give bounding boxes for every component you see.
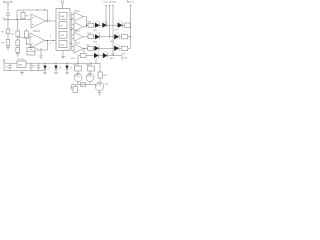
diode VD2 branch <box>55 63 57 65</box>
svg-text:C4: C4 <box>5 67 7 69</box>
connector box XS1 <box>27 48 35 56</box>
top rails label <box>103 0 117 3</box>
resistor R23 vertical <box>99 63 101 72</box>
resistor R5 column2 <box>16 40 20 46</box>
svg-text:DA2.4: DA2.4 <box>75 41 81 44</box>
wire input horizontal <box>4 18 31 20</box>
pin labels left <box>50 36 52 45</box>
svg-text:HL4: HL4 <box>94 41 99 43</box>
transistor VT2 <box>86 74 94 82</box>
svg-text:+9 В: +9 В <box>70 58 75 60</box>
wire feedback op-amp2 <box>37 41 48 51</box>
wire input vertical <box>7 4 9 20</box>
svg-text:R20: R20 <box>86 65 91 67</box>
resistor R20 <box>90 63 92 67</box>
regulator DA3 box <box>17 61 26 67</box>
rail right <box>130 5 131 48</box>
LED HL3 <box>118 23 123 28</box>
resistor R4 column2 <box>16 31 20 37</box>
capacitor C5 <box>29 63 33 70</box>
svg-text:R1: R1 <box>2 32 6 34</box>
PSU input terminal <box>3 60 5 64</box>
svg-text:КР1158: КР1158 <box>18 59 26 61</box>
LED HL8 <box>86 55 94 57</box>
cell 3 <box>59 31 67 38</box>
svg-text:R3: R3 <box>26 16 30 18</box>
svg-text:DA2.3: DA2.3 <box>75 30 81 33</box>
ground under DA2 <box>61 51 65 59</box>
comparator DA2.4 <box>74 44 83 53</box>
wire opamp2 plus input <box>27 43 31 45</box>
resistor R17 row3 end <box>119 36 121 38</box>
resistor R15 row5 <box>80 54 86 58</box>
resistor R21 <box>73 87 77 93</box>
ground PSU <box>20 71 24 75</box>
LED HL4 <box>94 36 95 38</box>
rail A <box>105 5 106 25</box>
svg-text:R9: R9 <box>60 25 64 27</box>
PSU bottom rail <box>4 63 44 70</box>
comparator DA2.3 <box>74 32 83 41</box>
svg-text:HL5: HL5 <box>110 41 115 43</box>
svg-text:DA2: DA2 <box>60 15 65 18</box>
svg-text:Вых. 1: Вых. 1 <box>127 1 135 3</box>
transistor VT1 <box>74 74 82 82</box>
resistor R14 row4 <box>83 47 87 49</box>
svg-text:C5: C5 <box>33 66 36 68</box>
resistor R3 feedback <box>21 12 25 19</box>
node input label top-left <box>3 1 13 4</box>
LED HL5 <box>114 34 119 39</box>
wire feedback op-amp1 <box>17 10 48 21</box>
PSU top rail <box>4 62 74 64</box>
wire op-amp2 out <box>45 40 56 42</box>
comparator DA2.1 <box>74 12 83 21</box>
svg-text:к выв.14 DA2: к выв.14 DA2 <box>103 0 117 3</box>
svg-text:R10: R10 <box>60 35 65 37</box>
svg-text:R2: R2 <box>2 43 6 45</box>
wire row5 from row4 <box>83 48 85 53</box>
bus stubs <box>72 15 74 51</box>
svg-text:C8: C8 <box>59 67 62 69</box>
label R24 <box>124 58 129 60</box>
cell 1 <box>59 12 67 19</box>
capacitor C1 <box>6 13 10 15</box>
cell 2 <box>59 22 67 29</box>
wire opamp2 minus input <box>18 37 30 39</box>
svg-text:+5 В: +5 В <box>60 1 65 3</box>
svg-text:DA1.2: DA1.2 <box>34 30 41 33</box>
rail C <box>112 5 113 56</box>
resistor R16 row2 end <box>122 24 124 26</box>
svg-text:6: 6 <box>50 43 52 45</box>
resistor R2 <box>6 40 10 46</box>
node junction A <box>7 19 8 20</box>
ground VT3 <box>98 91 102 96</box>
LED HL1 <box>94 24 95 26</box>
resistor R19 <box>77 56 79 67</box>
wire comp1 out down <box>83 17 86 27</box>
capacitor C2 column2 <box>16 47 20 52</box>
bus vertical <box>71 13 73 51</box>
wire op-amp1 out <box>46 20 57 22</box>
wire comp2 out <box>83 25 88 27</box>
resistor R6 column3 <box>25 31 29 38</box>
svg-text:R4: R4 <box>11 34 15 36</box>
transistor VT3 <box>99 78 101 82</box>
wire row4 <box>99 47 114 49</box>
svg-text:R18: R18 <box>122 53 127 55</box>
cell 4 <box>59 41 67 48</box>
resistor R18 row4 end <box>119 47 121 49</box>
svg-text:C9: C9 <box>70 67 73 69</box>
svg-text:R19: R19 <box>73 65 78 67</box>
ground stub opamp2 <box>39 48 43 58</box>
wire led row5 down <box>95 58 97 63</box>
capacitor C4 <box>8 63 12 70</box>
supply label top <box>60 1 65 3</box>
op-amp DA1.2 <box>30 33 45 48</box>
comparator DA2.2 <box>74 22 83 31</box>
wire DA2 pins to bus <box>70 20 72 44</box>
node junction B <box>16 19 17 20</box>
svg-text:HL1: HL1 <box>94 30 99 32</box>
svg-text:VT3: VT3 <box>105 84 110 86</box>
op-amp DA1.1 <box>31 14 46 28</box>
svg-text:R23: R23 <box>103 75 108 77</box>
svg-text:C1: C1 <box>2 18 6 20</box>
IC DA2 box <box>56 9 70 51</box>
cluster rail <box>74 62 100 64</box>
wire supply to DA2 <box>62 3 64 9</box>
LED HL6 <box>93 47 94 49</box>
LED HL7 <box>114 46 119 51</box>
node fb dot <box>44 9 45 10</box>
resistor R12 row2 <box>88 23 94 27</box>
diode VD3 branch <box>66 63 68 65</box>
wire row5 right <box>107 56 122 61</box>
LED emission arrows <box>95 21 122 53</box>
LED HL9 <box>99 55 103 57</box>
svg-text:DA2.1: DA2.1 <box>75 9 81 12</box>
diode VD1 branch <box>44 63 46 65</box>
rail B <box>109 5 110 37</box>
svg-text:HL9: HL9 <box>110 58 115 60</box>
resistor R1 <box>6 29 10 34</box>
svg-text:R24: R24 <box>124 58 129 60</box>
ground left chain <box>6 45 10 50</box>
resistor R13 row3 <box>83 36 88 38</box>
capacitor C6 <box>37 63 41 70</box>
wire base rail <box>70 85 95 90</box>
LED HL2 <box>100 24 103 26</box>
svg-text:R11: R11 <box>60 44 65 46</box>
svg-text:HL3: HL3 <box>115 30 120 32</box>
wire row3 <box>100 36 115 38</box>
svg-text:Вход ЛК: Вход ЛК <box>3 1 13 4</box>
svg-text:5: 5 <box>50 36 52 38</box>
resistor R22 <box>81 83 86 87</box>
svg-text:DA3: DA3 <box>18 63 23 66</box>
svg-text:C7: C7 <box>48 67 51 69</box>
wire row2 <box>107 24 118 26</box>
